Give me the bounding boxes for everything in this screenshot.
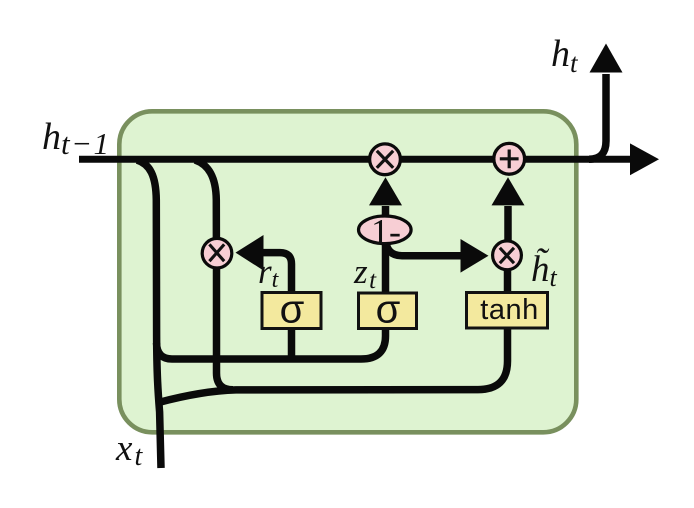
wire: z branch curving right toward multiply node x2 (386, 238, 462, 256)
arrowhead: z_t arrow pointing right into x2 (461, 239, 489, 273)
wire: sigma-r output up and left toward multiply node x1 (262, 253, 292, 294)
arrowhead: up arrow into plus node (492, 177, 525, 205)
arrowhead: up arrow into multiply node on main line (369, 177, 402, 205)
wire: below multiply node x1 down, curving right into lower bus (217, 266, 234, 390)
wire: main h line (h_t-1 to output) (79, 156, 632, 163)
arrowhead: main line right output (630, 143, 659, 175)
node: multiply circle x1 (reset gate product) (202, 238, 232, 268)
svg-text:tanh: tanh (480, 294, 538, 326)
wire: above 1- ellipse up to multiply node on main line (382, 206, 390, 216)
wire: sigma-r riser below box (T junction on upper bus) (288, 294, 296, 361)
svg-text:σ: σ (376, 288, 401, 332)
svg-text:1-: 1- (371, 212, 401, 252)
GRU cell body (rounded green box) (119, 111, 576, 432)
node: plus circle on main line (494, 143, 525, 174)
gate box: sigma z (359, 293, 417, 329)
wire: tanh riser through box up to multiply node x2 (504, 258, 512, 294)
arrowhead: r_t arrow pointing left into x1 (236, 235, 264, 271)
arrowhead: h_t up arrow (590, 44, 623, 73)
wire: drop 1 from main line into x_t riser (continues out bottom as x_t input) (137, 160, 161, 468)
gate box: tanh (467, 293, 548, 329)
node: multiply circle on main line (370, 144, 401, 175)
wire: lower bus from x_t riser junction to tanh riser (slight slope) (159, 327, 508, 403)
wire: sigma-z riser above box up to 1- ellipse (382, 218, 390, 294)
wire: drop 2 from main line down to multiply node x1 (195, 160, 216, 240)
svg-text:σ: σ (280, 288, 305, 332)
node: 1- ellipse (359, 216, 412, 244)
wire: h_t output branch (curve up from main line) (589, 74, 606, 159)
node: multiply circle x2 (update gate product) (493, 241, 522, 270)
wire: from multiply node x2 up toward plus node (504, 206, 512, 242)
wire: upper bottom bus from riser to sigma-z riser (y=359) (157, 330, 386, 359)
gate box: sigma r (262, 293, 321, 329)
